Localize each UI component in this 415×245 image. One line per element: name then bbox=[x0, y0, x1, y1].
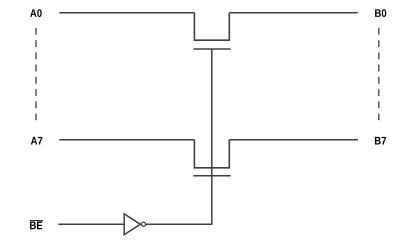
wire A0 to Q1 source bbox=[59, 12, 194, 14]
node B7 bbox=[375, 137, 386, 145]
node B0 bbox=[375, 9, 386, 17]
gate wire vertical (connects gates of Q1 and Q2 to U1 output) bbox=[211, 49, 213, 225]
bus continuation dashed line right (B0..B7) bbox=[378, 28, 380, 120]
wire Q2 drain to B7 bbox=[229, 139, 358, 141]
transistor Q1 pass MOSFET (channel U and gate bar) bbox=[194, 13, 231, 49]
node A0 bbox=[30, 9, 42, 17]
node BE (active-low bus enable label with overline) bbox=[30, 221, 43, 230]
inverter U1 (triangle with bubble) bbox=[124, 214, 145, 235]
node A7 bbox=[31, 137, 43, 145]
bus continuation dashed line left (A0..A7) bbox=[35, 28, 37, 120]
wire U1 output to gate line bbox=[146, 223, 212, 225]
wire BE to inverter U1 input bbox=[58, 223, 124, 225]
wire A7 to Q2 source bbox=[59, 139, 194, 141]
transistor Q2 pass MOSFET (channel U and gate bar) bbox=[194, 140, 231, 176]
wire Q1 drain to B0 bbox=[229, 12, 357, 14]
